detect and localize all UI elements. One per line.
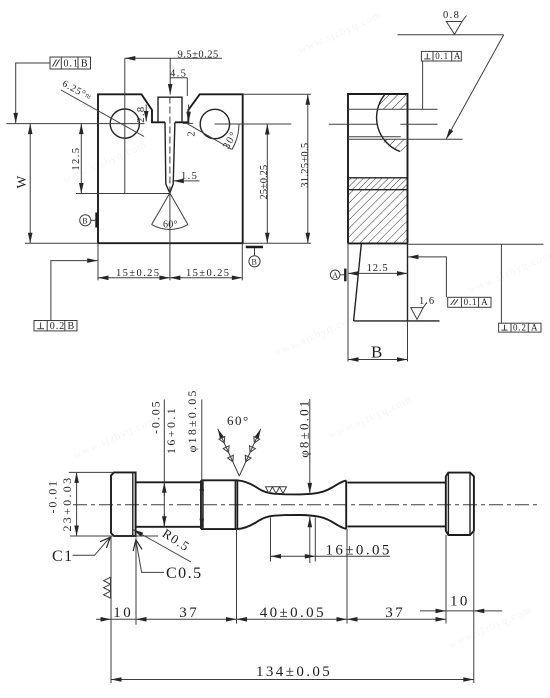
svg-text:12.5: 12.5: [367, 263, 389, 274]
svg-text:-0.01: -0.01: [46, 479, 60, 514]
svg-text:16+0.1: 16+0.1: [164, 406, 178, 454]
svg-text:0.2: 0.2: [50, 321, 66, 332]
svg-text:40±0.05: 40±0.05: [260, 605, 326, 621]
svg-text:37: 37: [385, 605, 405, 621]
svg-text:φ8±0.01: φ8±0.01: [296, 399, 311, 458]
svg-text:B: B: [81, 59, 89, 70]
svg-text:31.25±0.5: 31.25±0.5: [300, 143, 311, 188]
svg-text:23+0.03: 23+0.03: [60, 476, 74, 532]
svg-text:A: A: [332, 271, 338, 280]
svg-text:10: 10: [450, 593, 470, 609]
svg-text:2.8: 2.8: [136, 105, 147, 122]
svg-text:φ18±0.05: φ18±0.05: [185, 388, 199, 452]
svg-text:0.1: 0.1: [64, 59, 80, 70]
svg-text:0.8: 0.8: [443, 10, 460, 21]
svg-text:-0.05: -0.05: [149, 400, 163, 435]
svg-text:1.5: 1.5: [181, 171, 198, 182]
svg-text:1.6: 1.6: [419, 296, 435, 307]
svg-text:134±0.05: 134±0.05: [256, 664, 332, 680]
svg-text:C0.5: C0.5: [166, 565, 203, 582]
svg-text:A: A: [481, 297, 488, 307]
svg-text:W: W: [14, 176, 29, 189]
svg-text:B: B: [68, 321, 76, 332]
svg-text:9.5±0.25: 9.5±0.25: [178, 49, 219, 60]
svg-text:B: B: [371, 343, 382, 362]
svg-text:60°: 60°: [227, 413, 250, 428]
svg-text:2: 2: [187, 130, 198, 137]
svg-text:15±0.25: 15±0.25: [186, 268, 230, 279]
svg-text:C1: C1: [52, 548, 74, 565]
svg-text:60°: 60°: [163, 220, 178, 231]
svg-text:10: 10: [113, 605, 133, 621]
svg-text:A: A: [454, 51, 461, 61]
svg-text:A: A: [531, 322, 538, 332]
svg-text:12.5: 12.5: [71, 147, 82, 171]
svg-text:37: 37: [179, 605, 199, 621]
svg-text:0.2: 0.2: [513, 322, 527, 332]
svg-text:B: B: [82, 217, 87, 226]
svg-text:B: B: [252, 258, 257, 267]
svg-text:15±0.25: 15±0.25: [116, 268, 160, 279]
svg-text:0.1: 0.1: [464, 297, 478, 307]
svg-text:16±0.05: 16±0.05: [326, 543, 392, 559]
svg-text:0.1: 0.1: [435, 51, 449, 61]
svg-text:25±0.25: 25±0.25: [259, 165, 270, 200]
svg-text:4.5: 4.5: [170, 69, 187, 80]
